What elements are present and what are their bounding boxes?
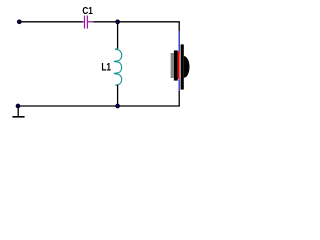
- svg-text:C1: C1: [82, 4, 92, 16]
- earphone SP1: [171, 44, 190, 89]
- capacitor C1: [82, 16, 93, 29]
- node B (bottom-left terminal): [16, 104, 20, 108]
- wire right vertical top (black part): [178, 22, 180, 31]
- node A (top-left terminal): [17, 20, 21, 24]
- wire vertical to inductor: [117, 22, 119, 49]
- node junction top: [116, 20, 120, 24]
- wire bottom horizontal: [18, 105, 180, 107]
- wire vertical inductor to bottom: [117, 85, 119, 106]
- wire right vertical bottom (black part): [178, 91, 180, 106]
- wire right vertical bottom (blue part): [178, 79, 180, 91]
- node junction bottom: [116, 104, 120, 108]
- ground: [12, 106, 24, 117]
- wire top-right horizontal: [93, 21, 179, 23]
- svg-text:L1: L1: [101, 62, 111, 74]
- wire top-left horizontal: [20, 21, 83, 23]
- wire right vertical top (blue part): [178, 31, 180, 53]
- inductor L1: [114, 49, 122, 86]
